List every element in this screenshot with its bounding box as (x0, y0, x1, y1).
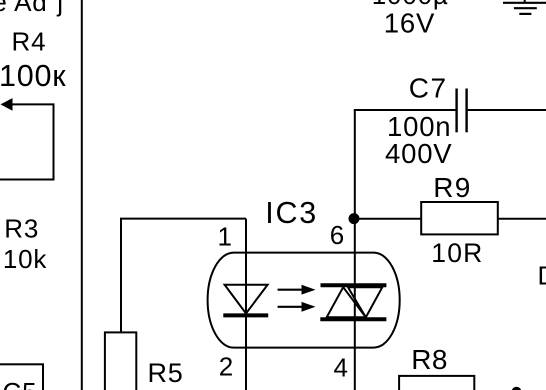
triac of IC3: top bar MT2 (321, 283, 387, 287)
svg-text:C5: C5 (3, 377, 38, 390)
svg-text:j: j (56, 0, 63, 17)
svg-text:4: 4 (334, 353, 348, 383)
svg-text:D4: D4 (538, 260, 546, 290)
svg-text:1: 1 (218, 222, 232, 252)
triac of IC3: bottom bar MT1 (320, 317, 386, 321)
svg-text:R4: R4 (12, 27, 47, 57)
svg-text:C7: C7 (409, 72, 448, 103)
opto-coupler IC3 body (208, 253, 400, 348)
svg-text:R3: R3 (4, 214, 39, 244)
resistor R9 (421, 202, 498, 234)
svg-text:e Ad: e Ad (0, 0, 48, 17)
wire: main vertical bus at left (81, 0, 83, 390)
svg-text:400V: 400V (385, 138, 452, 169)
capacitor C5 box (0, 364, 43, 390)
svg-text:6: 6 (330, 220, 344, 250)
wire: R9 left horizontal (355, 218, 422, 220)
wire: pin1-LED-pin2 vertical (245, 219, 247, 390)
LED of IC3: triangle (225, 285, 268, 314)
svg-text:IC3: IC3 (265, 196, 318, 230)
wire: pin6-triac-pin4 vertical (354, 110, 356, 390)
svg-text:R8: R8 (411, 344, 447, 375)
node: junction at pin 6 (349, 213, 360, 224)
node: junction bottom right (512, 387, 522, 390)
svg-text:10R: 10R (431, 238, 483, 268)
potentiometer R4 wiper arrowhead (1, 98, 13, 111)
ground symbol (503, 0, 546, 14)
light arrow lower (278, 302, 316, 312)
resistor R8 (399, 376, 474, 390)
wire: R4 feedback bottom horizontal (0, 179, 55, 181)
wire: from R5 up to pin 1 (121, 219, 246, 333)
wire: C7 left horizontal (354, 109, 456, 111)
triac of IC3: left triangle (327, 287, 366, 317)
svg-text:10k: 10k (3, 244, 48, 274)
svg-text:R5: R5 (148, 358, 184, 388)
svg-text:R9: R9 (433, 172, 471, 203)
capacitor C7 plates (457, 89, 467, 133)
resistor R5 (105, 332, 136, 390)
wire: R9 right horizontal (498, 218, 546, 220)
LED of IC3: cathode bar (223, 313, 268, 317)
svg-text:16V: 16V (384, 7, 435, 38)
svg-text:2: 2 (219, 351, 233, 381)
svg-text:100к: 100к (0, 59, 66, 93)
wire: R4 wiper horizontal (10, 103, 55, 105)
triac of IC3: right triangle (348, 287, 382, 317)
light arrow upper (278, 285, 316, 295)
wire: R4 feedback vertical (53, 104, 55, 179)
wire: C7 right horizontal (468, 109, 546, 111)
